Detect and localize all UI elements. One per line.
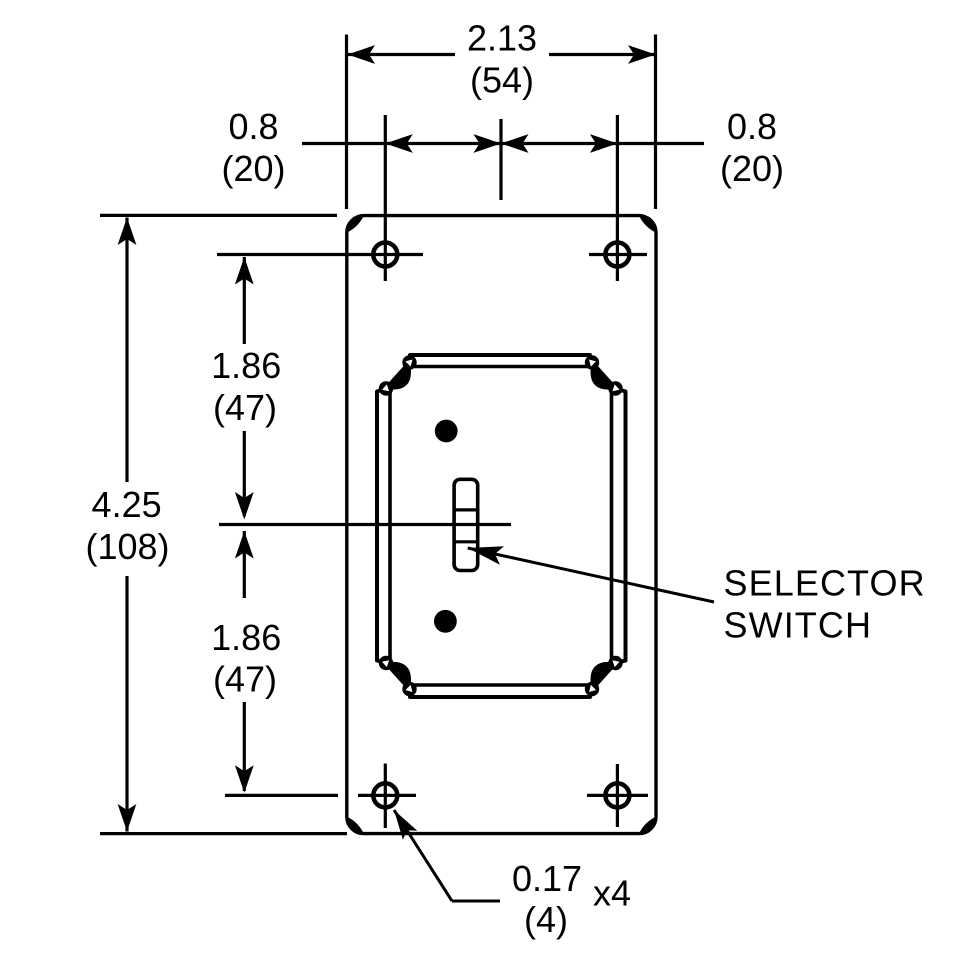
bezel corner crescent top-right xyxy=(591,363,615,390)
bezel inner edge left xyxy=(388,389,392,664)
svg-text:(108): (108) xyxy=(85,526,169,567)
mounting hole bottom-right xyxy=(605,783,629,807)
dim line 0.8 left pair xyxy=(385,142,501,145)
svg-text:(54): (54) xyxy=(470,59,534,100)
svg-text:(47): (47) xyxy=(213,659,277,700)
arrow 1.86 top up xyxy=(235,257,254,285)
svg-text:0.17: 0.17 xyxy=(512,858,582,899)
svg-text:1.86: 1.86 xyxy=(211,345,281,386)
arrow 4.25 bottom xyxy=(118,804,137,832)
bezel corner bulb 1 xyxy=(402,355,416,369)
leader 0.17 horizontal xyxy=(452,900,500,903)
switch bat line lower xyxy=(455,540,478,543)
svg-text:0.8: 0.8 xyxy=(727,106,777,147)
arrow 0.8 right-pair left xyxy=(501,134,529,153)
extension line switch centerline xyxy=(219,523,511,526)
switch bat line upper xyxy=(455,508,478,511)
dim line 4.25 upper xyxy=(125,218,128,483)
bezel corner bulb 3 xyxy=(585,355,599,369)
extension line plate-right top xyxy=(654,35,657,210)
arrow 1.86 bottom up xyxy=(235,531,254,559)
leader 0.17 diagonal xyxy=(394,810,452,901)
bezel inner edge bottom xyxy=(410,683,593,687)
arrow 2.13 right xyxy=(628,45,656,64)
bezel corner bulb notch 5 xyxy=(405,685,412,692)
mounting hole top-left xyxy=(373,243,397,267)
bezel corner bulb 8 xyxy=(608,656,622,670)
crosshair top-right hole xyxy=(589,253,647,256)
svg-text:1.86: 1.86 xyxy=(211,617,281,658)
bezel corner bulb 6 xyxy=(379,656,393,670)
arrow 1.86 bottom down xyxy=(235,765,254,793)
bezel corner crescent bottom-right xyxy=(591,662,615,689)
arrow 2.13 left xyxy=(348,45,376,64)
extension line hole-right xyxy=(616,115,619,281)
dim line 1.86 top lower xyxy=(243,431,246,516)
dim line 2.13 left xyxy=(348,53,456,56)
leader selector switch xyxy=(468,548,714,602)
bezel corner crescent top-left xyxy=(386,363,410,390)
dim line 2.13 right xyxy=(549,53,655,56)
selector switch slot xyxy=(454,479,478,570)
bezel corner bulb notch 2 xyxy=(382,384,389,391)
svg-text:4.25: 4.25 xyxy=(92,484,162,525)
arrow 1.86 top down xyxy=(235,492,254,520)
index dot lower xyxy=(434,610,457,633)
mounting hole bottom-left xyxy=(373,783,397,807)
arrow 0.8 left-pair left xyxy=(385,134,413,153)
dim line 1.86 bottom lower xyxy=(243,702,246,791)
bezel corner bulb 5 xyxy=(402,682,416,696)
bezel corner bulb notch 6 xyxy=(382,660,389,667)
extension line plate-top left xyxy=(100,214,337,217)
bezel corner bulb 4 xyxy=(608,381,622,395)
bezel corner bulb notch 8 xyxy=(612,660,619,667)
crosshair bottom-right hole vertical xyxy=(616,764,619,827)
dim line 4.25 lower xyxy=(125,576,128,832)
mounting hole top-right xyxy=(605,243,629,267)
svg-text:x4: x4 xyxy=(593,873,631,914)
bezel inner edge top xyxy=(410,365,593,369)
svg-text:(47): (47) xyxy=(213,387,277,428)
crosshair bottom-right hole horizontal xyxy=(587,794,648,797)
svg-text:(20): (20) xyxy=(720,148,784,189)
crosshair bottom-left hole horizontal xyxy=(358,794,416,797)
extension line plate-left top xyxy=(345,35,348,210)
arrow selector switch xyxy=(466,539,504,565)
bezel corner crescent bottom-left xyxy=(386,662,410,689)
bezel corner bulb notch 7 xyxy=(589,685,596,692)
arrow 0.17 xyxy=(387,805,417,839)
dim lead-in 0.8 left xyxy=(302,142,385,145)
extension line hole-left xyxy=(384,115,387,281)
bezel corner bulb notch 4 xyxy=(612,384,619,391)
bezel corner bulb notch 3 xyxy=(589,360,596,367)
svg-text:(4): (4) xyxy=(524,899,568,940)
dim line 1.86 top upper xyxy=(243,257,246,344)
dim line 1.86 bottom upper xyxy=(243,531,246,598)
svg-text:SWITCH: SWITCH xyxy=(724,605,873,646)
bezel corner bulb notch 1 xyxy=(405,360,412,367)
bezel inner edge right xyxy=(610,389,614,664)
bezel outer outline xyxy=(377,355,626,697)
arrow 0.8 left-pair right xyxy=(474,134,502,153)
svg-text:0.8: 0.8 xyxy=(228,106,278,147)
svg-text:2.13: 2.13 xyxy=(467,17,537,58)
arrow 0.8 right-pair right xyxy=(590,134,618,153)
extension line plate-bottom left xyxy=(100,832,347,835)
plate corner fill bottom-right xyxy=(639,817,656,834)
plate outline xyxy=(347,216,656,834)
dim line 0.8 right pair xyxy=(501,142,617,145)
svg-text:SELECTOR: SELECTOR xyxy=(724,563,926,604)
extension line top holes xyxy=(217,253,423,256)
plate corner fill bottom-left xyxy=(347,817,364,834)
plate corner fill top-left xyxy=(347,216,364,233)
bezel corner bulb 2 xyxy=(379,381,393,395)
extension line center vertical xyxy=(499,119,502,200)
crosshair bottom-left hole vertical xyxy=(384,764,387,829)
svg-text:(20): (20) xyxy=(221,148,285,189)
bezel corner bulb 7 xyxy=(585,682,599,696)
plate corner fill top-right xyxy=(639,216,656,233)
dim lead-out 0.8 right xyxy=(617,142,704,145)
extension line bottom holes xyxy=(225,794,338,797)
index dot upper xyxy=(435,420,458,443)
arrow 4.25 top xyxy=(118,218,137,246)
